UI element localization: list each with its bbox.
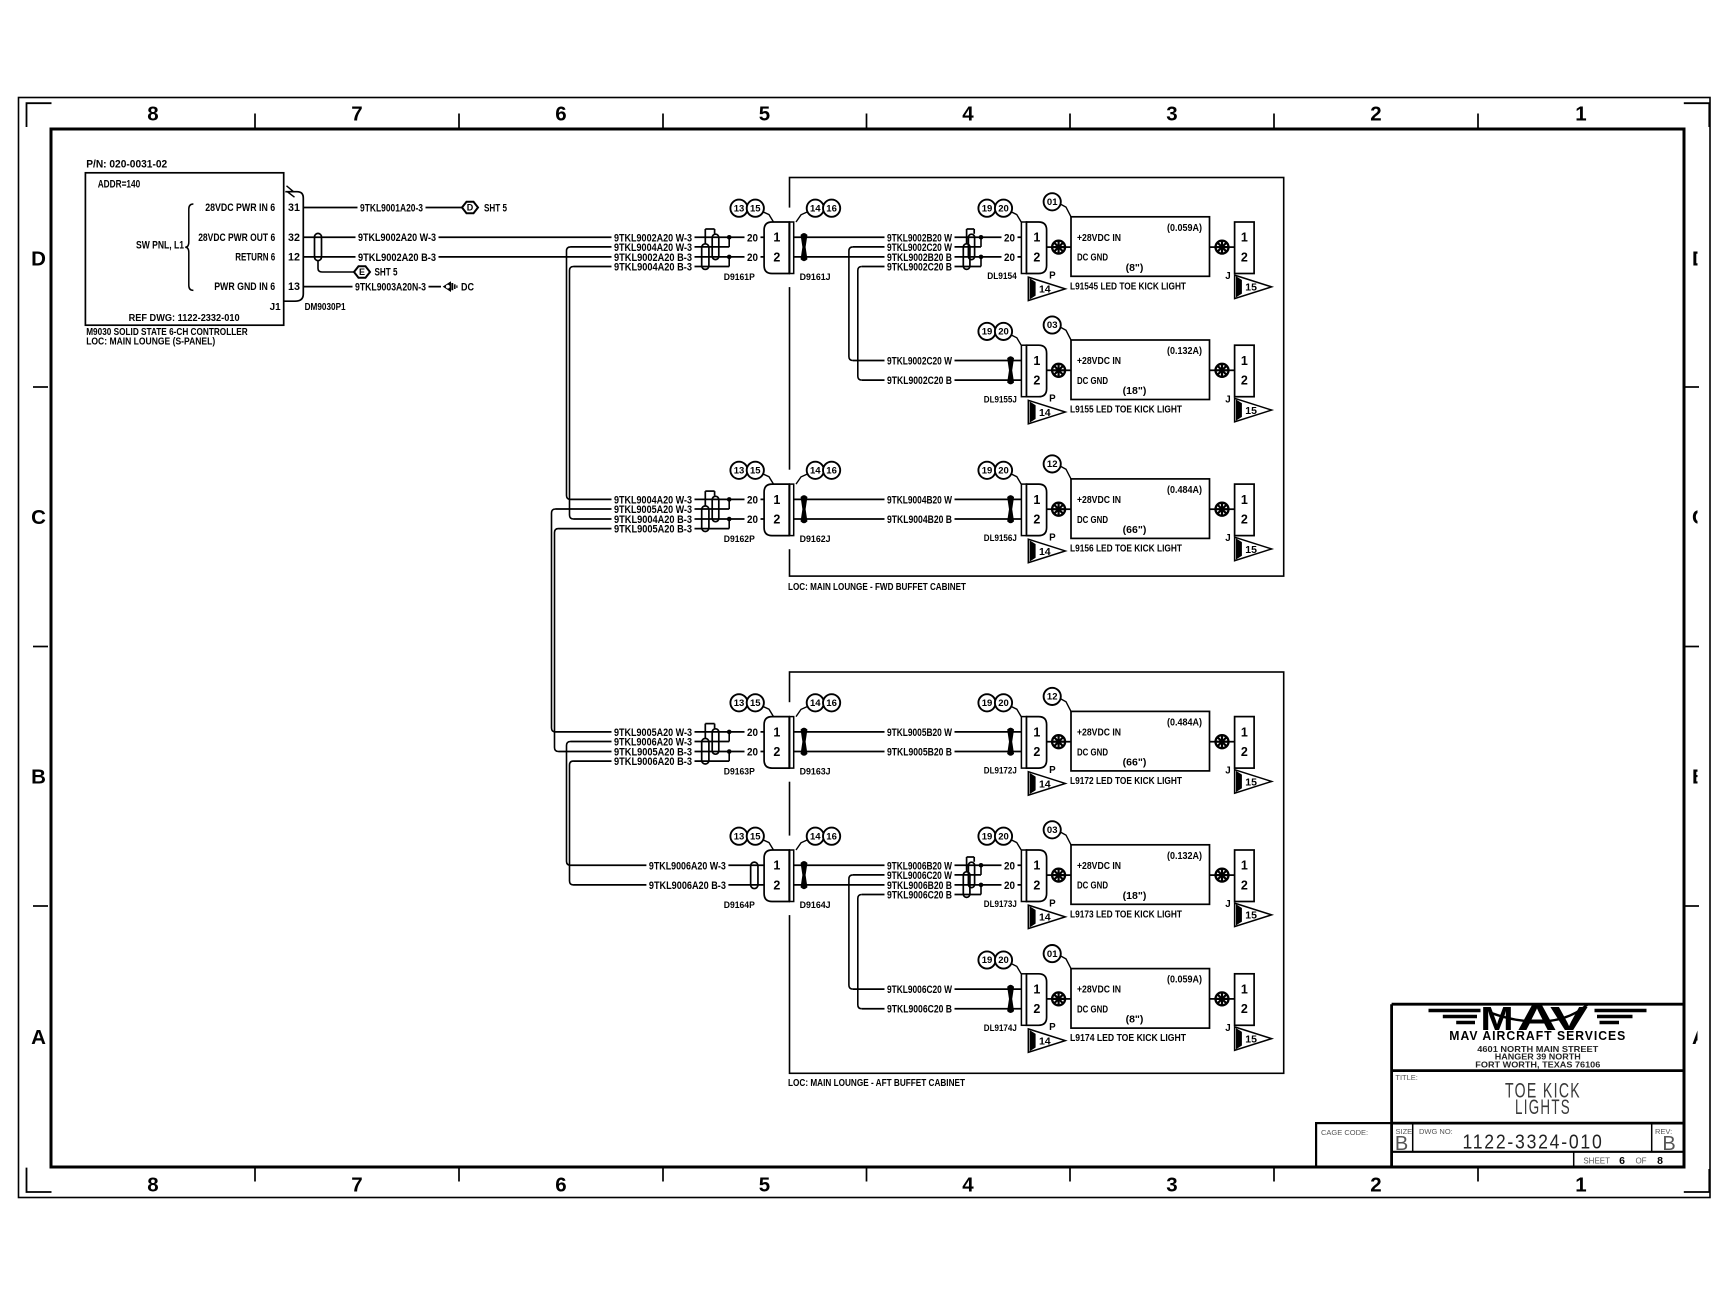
svg-text:19: 19 (982, 831, 993, 842)
svg-text:J: J (1225, 766, 1230, 777)
svg-text:9TKL9004B20 B: 9TKL9004B20 B (887, 514, 952, 526)
svg-text:2: 2 (773, 745, 780, 759)
svg-text:12: 12 (1047, 692, 1058, 703)
svg-text:REF DWG: 1122-2332-010: REF DWG: 1122-2332-010 (129, 312, 240, 324)
svg-text:LOC: MAIN LOUNGE (S-PANEL): LOC: MAIN LOUNGE (S-PANEL) (86, 336, 215, 348)
svg-text:20: 20 (747, 727, 758, 739)
svg-text:16: 16 (826, 698, 837, 709)
svg-text:14: 14 (1039, 912, 1051, 924)
svg-text:6: 6 (555, 1174, 566, 1197)
svg-text:9TKL9001A20-3: 9TKL9001A20-3 (360, 202, 423, 214)
svg-text:9TKL9005B20 W: 9TKL9005B20 W (887, 727, 952, 739)
svg-text:01: 01 (1047, 197, 1058, 208)
svg-text:2: 2 (1241, 745, 1248, 759)
svg-text:DC GND: DC GND (1077, 376, 1108, 387)
svg-text:(18"): (18") (1123, 385, 1147, 397)
svg-text:DL9155J: DL9155J (984, 394, 1017, 404)
svg-text:J: J (1225, 899, 1230, 910)
svg-text:9TKL9002A20 W-3: 9TKL9002A20 W-3 (358, 232, 436, 244)
svg-text:13: 13 (734, 203, 745, 214)
svg-text:3: 3 (1166, 103, 1177, 126)
svg-text:B: B (31, 766, 46, 789)
svg-text:5: 5 (759, 103, 770, 126)
svg-text:1: 1 (773, 231, 780, 245)
svg-text:P: P (1049, 394, 1056, 405)
svg-text:1: 1 (1033, 725, 1040, 739)
svg-text:1: 1 (1241, 493, 1248, 507)
svg-text:P: P (1049, 898, 1056, 909)
svg-text:2: 2 (1370, 103, 1381, 126)
svg-text:15: 15 (1245, 910, 1257, 922)
svg-text:SHEET: SHEET (1583, 1156, 1610, 1165)
svg-text:15: 15 (750, 698, 761, 709)
svg-text:2: 2 (1033, 1002, 1040, 1016)
svg-text:12: 12 (288, 252, 300, 264)
svg-text:1: 1 (773, 493, 780, 507)
svg-text:1: 1 (1033, 493, 1040, 507)
svg-text:2: 2 (1033, 745, 1040, 759)
svg-text:E: E (359, 267, 365, 277)
svg-text:2: 2 (1241, 878, 1248, 892)
svg-text:DL9174J: DL9174J (984, 1023, 1017, 1033)
svg-text:2: 2 (773, 512, 780, 526)
svg-text:20: 20 (998, 203, 1009, 214)
svg-text:(0.484A): (0.484A) (1167, 717, 1202, 729)
svg-text:P: P (1049, 532, 1056, 543)
svg-text:15: 15 (1245, 405, 1257, 417)
svg-text:20: 20 (747, 494, 758, 506)
svg-text:DM9030P1: DM9030P1 (305, 302, 346, 313)
svg-text:(0.132A): (0.132A) (1167, 345, 1202, 357)
svg-text:1: 1 (1575, 103, 1586, 126)
svg-text:DC GND: DC GND (1077, 881, 1108, 892)
svg-text:(18"): (18") (1123, 890, 1147, 902)
svg-text:L9156 LED TOE KICK LIGHT: L9156 LED TOE KICK LIGHT (1070, 544, 1182, 555)
svg-text:A: A (31, 1026, 46, 1049)
svg-text:1: 1 (1033, 859, 1040, 873)
svg-text:DL9172J: DL9172J (984, 766, 1017, 776)
svg-text:1: 1 (773, 859, 780, 873)
svg-text:FORT WORTH, TEXAS 76106: FORT WORTH, TEXAS 76106 (1475, 1059, 1600, 1069)
svg-text:9TKL9005B20 B: 9TKL9005B20 B (887, 747, 952, 759)
svg-text:9TKL9004B20 W: 9TKL9004B20 W (887, 494, 952, 506)
svg-text:P: P (1049, 270, 1056, 281)
svg-text:J: J (1225, 1023, 1230, 1034)
svg-text:19: 19 (982, 466, 993, 477)
svg-text:D9162P: D9162P (724, 534, 755, 544)
svg-text:20: 20 (1004, 252, 1015, 264)
svg-text:1: 1 (773, 725, 780, 739)
svg-text:L9174 LED TOE KICK LIGHT: L9174 LED TOE KICK LIGHT (1070, 1033, 1186, 1044)
svg-text:2: 2 (773, 878, 780, 892)
svg-text:14: 14 (1039, 284, 1051, 296)
svg-text:CAGE CODE:: CAGE CODE: (1321, 1128, 1368, 1137)
svg-text:MAV AIRCRAFT SERVICES: MAV AIRCRAFT SERVICES (1449, 1029, 1626, 1043)
svg-text:1: 1 (1241, 354, 1248, 368)
svg-text:14: 14 (810, 698, 821, 709)
svg-text:32: 32 (288, 232, 300, 244)
svg-text:D9162J: D9162J (800, 534, 831, 544)
svg-text:9TKL9005A20 B-3: 9TKL9005A20 B-3 (614, 524, 692, 536)
svg-text:1: 1 (1033, 983, 1040, 997)
svg-text:9TKL9002A20 B-3: 9TKL9002A20 B-3 (358, 252, 436, 264)
svg-text:13: 13 (288, 281, 300, 293)
svg-text:DL9154: DL9154 (987, 271, 1017, 281)
svg-text:(8"): (8") (1126, 262, 1144, 274)
svg-text:D9161P: D9161P (724, 272, 755, 282)
svg-text:1: 1 (1241, 725, 1248, 739)
svg-text:14: 14 (1039, 407, 1051, 419)
svg-text:15: 15 (1245, 776, 1257, 788)
svg-text:16: 16 (826, 203, 837, 214)
svg-text:(0.059A): (0.059A) (1167, 222, 1202, 234)
svg-text:15: 15 (750, 466, 761, 477)
svg-text:20: 20 (1004, 860, 1015, 872)
svg-text:D9161J: D9161J (800, 272, 831, 282)
svg-text:19: 19 (982, 955, 993, 966)
svg-text:(66"): (66") (1123, 757, 1147, 769)
svg-text:2: 2 (1033, 512, 1040, 526)
svg-text:2: 2 (1370, 1174, 1381, 1197)
svg-text:9TKL9004A20 B-3: 9TKL9004A20 B-3 (614, 262, 692, 274)
svg-text:15: 15 (750, 831, 761, 842)
svg-text:D9164P: D9164P (724, 900, 755, 910)
svg-text:7: 7 (351, 103, 362, 126)
svg-text:L9173 LED TOE KICK LIGHT: L9173 LED TOE KICK LIGHT (1070, 909, 1182, 920)
svg-text:13: 13 (734, 698, 745, 709)
svg-text:OF: OF (1635, 1156, 1646, 1165)
svg-text:16: 16 (826, 831, 837, 842)
svg-text:6: 6 (555, 103, 566, 126)
svg-text:03: 03 (1047, 825, 1058, 836)
svg-text:LOC: MAIN LOUNGE - FWD BUFFET: LOC: MAIN LOUNGE - FWD BUFFET CABINET (788, 581, 966, 593)
svg-text:20: 20 (747, 747, 758, 759)
svg-text:9TKL9006C20 B: 9TKL9006C20 B (887, 890, 952, 902)
svg-text:DC GND: DC GND (1077, 1005, 1108, 1016)
svg-text:RETURN 6: RETURN 6 (235, 252, 275, 264)
svg-text:J: J (1225, 271, 1230, 282)
svg-text:14: 14 (1039, 546, 1051, 558)
svg-text:20: 20 (747, 232, 758, 244)
svg-text:L9172 LED TOE KICK LIGHT: L9172 LED TOE KICK LIGHT (1070, 776, 1182, 787)
svg-text:(66"): (66") (1123, 524, 1147, 536)
svg-text:SHT 5: SHT 5 (484, 202, 507, 214)
svg-text:20: 20 (998, 698, 1009, 709)
svg-text:20: 20 (998, 955, 1009, 966)
svg-text:9TKL9006C20 W: 9TKL9006C20 W (887, 984, 952, 996)
svg-text:SHT 5: SHT 5 (375, 267, 398, 279)
svg-text:20: 20 (747, 514, 758, 526)
svg-text:4: 4 (962, 103, 974, 126)
svg-text:03: 03 (1047, 320, 1058, 331)
svg-text:9TKL9006C20 B: 9TKL9006C20 B (887, 1004, 952, 1016)
svg-text:14: 14 (810, 466, 821, 477)
svg-text:9TKL9003A20N-3: 9TKL9003A20N-3 (355, 282, 426, 294)
svg-text:L91545 LED TOE KICK LIGHT: L91545 LED TOE KICK LIGHT (1070, 281, 1186, 292)
svg-text:8: 8 (147, 103, 158, 126)
svg-text:2: 2 (1241, 1002, 1248, 1016)
svg-text:2: 2 (1033, 250, 1040, 264)
svg-text:LIGHTS: LIGHTS (1515, 1096, 1571, 1119)
svg-text:16: 16 (826, 466, 837, 477)
svg-text:B: B (1662, 1133, 1675, 1155)
svg-text:2: 2 (773, 250, 780, 264)
svg-text:31: 31 (288, 202, 300, 214)
svg-text:DC GND: DC GND (1077, 515, 1108, 526)
svg-text:J: J (1225, 394, 1230, 405)
svg-text:PWR GND IN 6: PWR GND IN 6 (214, 281, 275, 293)
svg-text:D9164J: D9164J (800, 900, 831, 910)
svg-text:DWG NO:: DWG NO: (1419, 1127, 1453, 1136)
svg-text:(0.132A): (0.132A) (1167, 850, 1202, 862)
svg-text:+28VDC IN: +28VDC IN (1077, 861, 1121, 872)
svg-text:2: 2 (1241, 512, 1248, 526)
svg-text:14: 14 (810, 831, 821, 842)
svg-text:20: 20 (998, 327, 1009, 338)
svg-text:D: D (31, 247, 46, 270)
svg-text:9TKL9002C20 B: 9TKL9002C20 B (887, 375, 952, 387)
svg-text:DC GND: DC GND (1077, 747, 1108, 758)
svg-text:SW PNL, L1: SW PNL, L1 (136, 239, 184, 251)
svg-text:J1: J1 (270, 302, 282, 313)
svg-text:TITLE:: TITLE: (1395, 1073, 1418, 1082)
svg-text:1122-3324-010: 1122-3324-010 (1463, 1132, 1604, 1154)
svg-text:1: 1 (1241, 231, 1248, 245)
svg-text:28VDC PWR IN 6: 28VDC PWR IN 6 (205, 202, 275, 214)
svg-text:2: 2 (1241, 374, 1248, 388)
svg-text:19: 19 (982, 203, 993, 214)
svg-text:DC GND: DC GND (1077, 253, 1108, 264)
svg-text:28VDC PWR OUT 6: 28VDC PWR OUT 6 (198, 232, 275, 244)
svg-text:1: 1 (1575, 1174, 1586, 1197)
svg-text:2: 2 (1033, 374, 1040, 388)
svg-text:+28VDC IN: +28VDC IN (1077, 495, 1121, 506)
svg-text:+28VDC IN: +28VDC IN (1077, 985, 1121, 996)
svg-text:20: 20 (998, 831, 1009, 842)
svg-text:20: 20 (1004, 880, 1015, 892)
svg-text:8: 8 (147, 1174, 158, 1197)
svg-text:19: 19 (982, 327, 993, 338)
svg-text:12: 12 (1047, 459, 1058, 470)
svg-text:14: 14 (1039, 1035, 1051, 1047)
svg-text:DL9156J: DL9156J (984, 533, 1017, 543)
svg-text:14: 14 (810, 203, 821, 214)
svg-text:B: B (1395, 1133, 1408, 1155)
svg-text:ADDR=140: ADDR=140 (98, 179, 141, 191)
svg-text:D9163P: D9163P (724, 767, 755, 777)
svg-text:DL9173J: DL9173J (984, 899, 1017, 909)
svg-text:9TKL9002C20 B: 9TKL9002C20 B (887, 262, 952, 274)
svg-text:D9163J: D9163J (800, 767, 831, 777)
svg-text:(8"): (8") (1126, 1014, 1144, 1026)
svg-text:P: P (1049, 765, 1056, 776)
svg-text:3: 3 (1166, 1174, 1177, 1197)
svg-text:1: 1 (1241, 859, 1248, 873)
svg-text:9TKL9006A20 W-3: 9TKL9006A20 W-3 (649, 860, 726, 872)
svg-text:15: 15 (1245, 1033, 1257, 1045)
svg-text:01: 01 (1047, 949, 1058, 960)
svg-text:9TKL9006A20 B-3: 9TKL9006A20 B-3 (649, 880, 726, 892)
svg-text:P: P (1049, 1022, 1056, 1033)
svg-text:20: 20 (747, 252, 758, 264)
svg-text:2: 2 (1033, 878, 1040, 892)
svg-text:J: J (1225, 533, 1230, 544)
svg-text:8: 8 (1657, 1155, 1663, 1167)
svg-text:9TKL9002C20 W: 9TKL9002C20 W (887, 356, 952, 368)
svg-text:L9155 LED TOE KICK LIGHT: L9155 LED TOE KICK LIGHT (1070, 405, 1182, 416)
svg-text:(0.484A): (0.484A) (1167, 484, 1202, 496)
svg-text:(0.059A): (0.059A) (1167, 974, 1202, 986)
svg-text:DC: DC (461, 281, 474, 293)
svg-text:2: 2 (1241, 250, 1248, 264)
svg-text:D: D (467, 203, 474, 213)
svg-text:19: 19 (982, 698, 993, 709)
svg-text:15: 15 (1245, 282, 1257, 294)
svg-text:13: 13 (734, 831, 745, 842)
svg-text:4: 4 (962, 1174, 974, 1197)
svg-text:9TKL9006A20 B-3: 9TKL9006A20 B-3 (614, 756, 692, 768)
svg-text:13: 13 (734, 466, 745, 477)
svg-text:1: 1 (1241, 983, 1248, 997)
svg-text:P/N: 020-0031-02: P/N: 020-0031-02 (86, 159, 167, 171)
svg-text:20: 20 (998, 466, 1009, 477)
svg-text:+28VDC IN: +28VDC IN (1077, 356, 1121, 367)
svg-text:C: C (31, 506, 46, 529)
svg-text:1: 1 (1033, 354, 1040, 368)
svg-text:+28VDC IN: +28VDC IN (1077, 233, 1121, 244)
svg-text:5: 5 (759, 1174, 770, 1197)
svg-text:15: 15 (1245, 544, 1257, 556)
svg-text:6: 6 (1619, 1155, 1625, 1167)
svg-text:14: 14 (1039, 778, 1051, 790)
svg-text:1: 1 (1033, 231, 1040, 245)
svg-text:7: 7 (351, 1174, 362, 1197)
svg-text:15: 15 (750, 203, 761, 214)
svg-text:LOC: MAIN LOUNGE - AFT BUFFET: LOC: MAIN LOUNGE - AFT BUFFET CABINET (788, 1077, 965, 1089)
svg-text:20: 20 (1004, 232, 1015, 244)
svg-text:+28VDC IN: +28VDC IN (1077, 727, 1121, 738)
